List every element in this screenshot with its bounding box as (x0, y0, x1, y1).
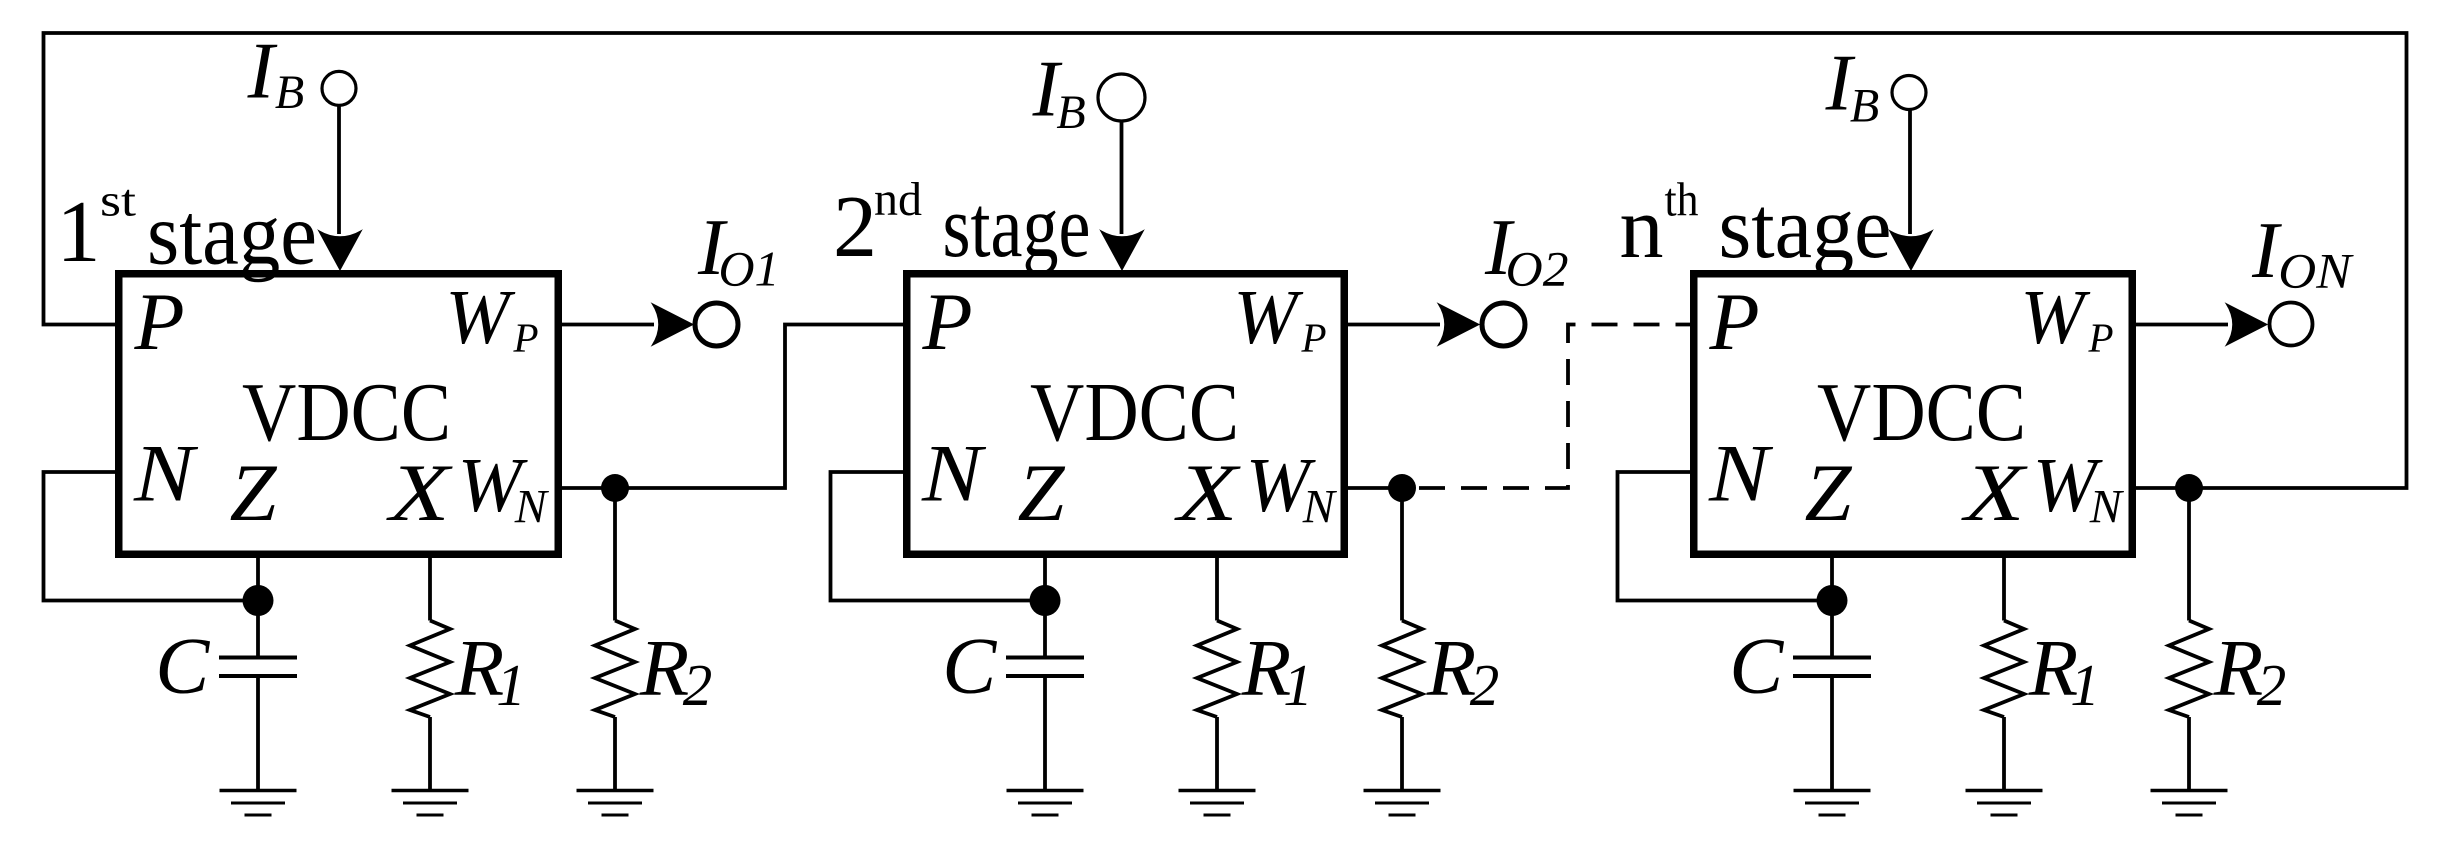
svg-text:N: N (133, 428, 199, 519)
svg-text:C: C (942, 621, 997, 711)
svg-text:N: N (1708, 428, 1774, 519)
svg-text:B: B (1056, 86, 1085, 139)
svg-text:Z: Z (1805, 447, 1853, 538)
svg-text:O1: O1 (719, 241, 780, 297)
svg-text:th: th (1665, 174, 1699, 227)
svg-text:O2: O2 (1506, 241, 1569, 297)
svg-text:B: B (275, 66, 304, 119)
svg-text:W: W (2020, 274, 2090, 360)
svg-text:X: X (1961, 447, 2028, 538)
svg-text:R: R (639, 623, 689, 713)
svg-text:nd: nd (874, 173, 922, 226)
svg-text:VDCC: VDCC (1030, 366, 1239, 459)
svg-text:I: I (247, 28, 278, 116)
svg-text:X: X (1174, 447, 1241, 538)
svg-text:N: N (921, 428, 987, 519)
svg-text:N: N (1302, 480, 1338, 533)
svg-text:W: W (1233, 274, 1303, 360)
svg-text:P: P (1708, 276, 1759, 367)
svg-text:2: 2 (833, 179, 877, 276)
svg-text:st: st (100, 175, 136, 226)
svg-text:P: P (133, 276, 184, 367)
svg-text:stage: stage (943, 179, 1091, 276)
svg-text:1: 1 (496, 652, 526, 718)
svg-text:VDCC: VDCC (1817, 366, 2026, 459)
svg-text:VDCC: VDCC (242, 366, 451, 459)
svg-text:X: X (386, 447, 453, 538)
svg-text:n: n (1620, 180, 1664, 277)
svg-text:stage: stage (147, 187, 317, 284)
svg-text:Z: Z (1018, 447, 1066, 538)
svg-text:P: P (512, 315, 538, 361)
svg-text:2: 2 (683, 652, 713, 718)
svg-text:N: N (2089, 480, 2125, 533)
svg-text:C: C (155, 621, 210, 711)
svg-text:ON: ON (2278, 243, 2354, 299)
svg-text:P: P (921, 276, 972, 367)
svg-text:stage: stage (1719, 180, 1892, 277)
svg-text:1: 1 (57, 184, 101, 281)
svg-text:W: W (445, 274, 515, 360)
svg-text:N: N (514, 480, 550, 533)
svg-text:B: B (1850, 80, 1879, 133)
svg-text:R: R (2213, 623, 2263, 713)
svg-text:1: 1 (2070, 652, 2100, 718)
svg-text:P: P (1300, 315, 1326, 361)
svg-text:P: P (2087, 315, 2113, 361)
svg-text:2: 2 (1470, 652, 1500, 718)
svg-text:Z: Z (230, 447, 278, 538)
svg-text:1: 1 (1283, 652, 1313, 718)
svg-text:R: R (1426, 623, 1476, 713)
svg-text:C: C (1729, 621, 1784, 711)
svg-text:2: 2 (2257, 652, 2287, 718)
